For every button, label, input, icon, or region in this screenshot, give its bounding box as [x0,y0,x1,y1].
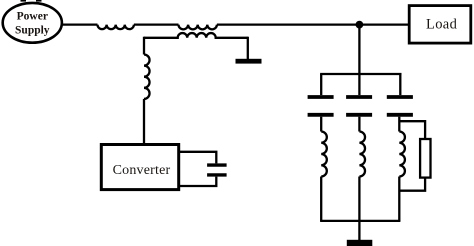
ground G1 bar [236,59,262,64]
node A junction dot [356,21,364,29]
wire: secondary left end down [143,37,145,55]
resistor R1 [420,139,430,178]
wire: resistor top connection [399,121,425,139]
capacitor C3 top plate [346,95,372,99]
wire: node A to load [359,23,409,25]
wire: L1 to transformer [134,23,179,25]
svg-text:Supply: Supply [15,24,50,36]
wire: C1 bottom to converter bottom right [179,177,217,186]
wire: node A down to top bus [358,25,360,74]
capacitor C4 top plate [387,95,413,99]
wire: L3 to bottom bus [320,177,322,221]
wire: bottom bus [320,220,400,222]
transformer T1 primary winding [179,25,217,30]
inductor L5 [399,132,405,177]
wire: branch 2 drop [358,74,360,95]
wire: supply to L1 [62,23,98,25]
wire: resistor bottom connection [399,178,425,191]
wire: C4 to L5 [398,117,400,132]
wire: transformer to node A [217,23,360,25]
capacitor C2 bottom plate [308,113,334,117]
inductor L4 [359,132,365,177]
capacitor C3 bottom plate [346,113,372,117]
wire: L4 to bottom bus [358,177,360,221]
converter box [101,145,178,190]
clipped caption marks at top edge [21,0,42,2]
wire: converter top right to C1 [179,152,217,164]
capacitor C1 top plate [207,163,227,166]
wire: C2 to L3 [320,117,322,132]
ground G2 bar [347,240,373,246]
svg-text:Converter: Converter [113,163,171,178]
wire: secondary right end down to ground [247,37,249,60]
wire: L2 to converter [143,99,145,145]
inductor L3 [321,132,327,177]
load box [409,6,471,44]
inductor L1 [98,25,134,30]
svg-text:Power: Power [17,10,48,22]
power supply source PS [3,3,62,43]
capacitor C1 bottom plate [207,173,227,176]
capacitor C2 top plate [308,95,334,99]
inductor L2 vertical [144,55,150,99]
wire: L5 to bottom bus [398,177,400,221]
capacitor C4 bottom plate [387,113,413,117]
wire: C3 to L4 [358,117,360,132]
wire: top bus [320,73,401,75]
svg-text:Load: Load [426,17,458,33]
wire: branch 3 drop [399,74,401,95]
wire: ground stem [358,221,360,240]
wire: branch 1 drop [320,74,322,95]
transformer T1 secondary winding [144,33,248,38]
